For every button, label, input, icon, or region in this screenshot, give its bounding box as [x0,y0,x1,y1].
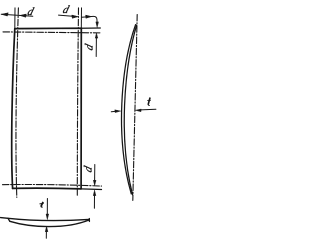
dimension d top-left: left arrowhead [2,13,9,16]
dimension d bottom-right: down arrowhead at dash-dot line [93,180,96,185]
bottom view: right end cap [88,219,90,222]
front view: top horizontal dash-dot measuring line [3,32,102,33]
label t side view [147,98,151,106]
svg-text:d: d [83,164,95,173]
svg-text:d: d [83,42,95,51]
side view: outer bowed curve [122,25,136,194]
dimension t bottom view: lower tail [45,231,47,238]
dimension d bottom-right: upper tail [94,165,96,182]
front view: bottom edge extension to the right [81,188,101,191]
dimension d top-right: lower tail [95,37,97,57]
dimension d top-right: leader with elbow and down arrow [82,16,97,22]
bottom view: straight top line with left overshoot [1,218,90,221]
side view: vertical dash-dot centerline [133,15,137,201]
dimension t side view: left-pointing arrowhead at centerline [135,109,141,112]
side view: inner bowed curve [124,25,136,195]
dimension d top-middle: arrowhead pointing right [72,15,78,18]
dimension t side view: right tail [141,108,156,111]
dimension t side view: left tail [111,110,116,113]
dimension t bottom view: up arrowhead [45,226,48,231]
bottom view: left end cap [8,218,10,221]
bottom view: sagging bottom curve [10,220,90,227]
front view: panel rectangle outline [15,28,82,189]
dimension d top-left: right arrowhead [20,14,26,17]
dimension t bottom view: down arrowhead [46,214,49,220]
front view: left edge extension line above top edge [14,8,16,29]
svg-text:d: d [26,6,35,18]
front view: top edge extension to the right [81,27,100,29]
svg-text:d: d [61,4,70,16]
dimension d top-right: up arrowhead at dash-dot line [95,33,98,38]
label t bottom view [40,202,44,207]
dimension d bottom-right: lower tail [93,195,95,208]
dimension d top-left: dimension line [1,14,33,16]
dimension t bottom view: upper tail [46,199,48,215]
dimension d bottom-right: up arrowhead at bottom edge [93,190,96,195]
front view: left vertical dash-dot measuring line [16,8,18,197]
front view: bottom horizontal dash-dot measuring line [3,184,102,186]
dimension d top-right: down arrowhead at top edge [96,22,99,28]
front view: right vertical dash-dot measuring line [77,8,78,196]
front view: right edge extension line above top edge [80,8,82,28]
dimension t side view: right-pointing arrowhead at curve [115,110,121,113]
dimension d top-right: small arrowhead on leader [86,15,92,18]
dimension d top-middle: dimension line [59,15,73,16]
